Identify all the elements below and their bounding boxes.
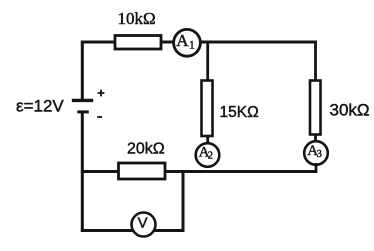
wire voltmeter loop right vertical <box>182 170 185 232</box>
svg-text:2: 2 <box>208 151 213 162</box>
battery B1 negative plate <box>77 110 89 113</box>
ammeter A1 <box>174 29 201 56</box>
svg-text:15KΩ: 15KΩ <box>220 104 259 121</box>
svg-text:1: 1 <box>189 40 195 52</box>
ammeter A3 <box>304 141 328 165</box>
wire bottom rail <box>81 170 317 173</box>
svg-text:ε=12V: ε=12V <box>16 97 64 116</box>
wire top rail right segment from A1 to right branch <box>198 41 317 44</box>
svg-text:A: A <box>176 31 189 50</box>
wire from R3 to ammeter A3 <box>314 135 317 144</box>
resistor R2 15KΩ <box>202 81 213 137</box>
svg-text:20kΩ: 20kΩ <box>127 141 165 158</box>
svg-text:30kΩ: 30kΩ <box>330 101 370 120</box>
svg-text:10kΩ: 10kΩ <box>118 9 156 28</box>
battery B1 positive plate <box>72 99 93 102</box>
wire from R2 to ammeter A2 <box>206 136 209 145</box>
wire from R1 to ammeter A1 <box>161 41 176 44</box>
battery plus sign <box>98 90 105 97</box>
battery minus sign <box>97 116 102 118</box>
resistor R3 30kΩ <box>310 81 321 135</box>
ammeter A2 <box>196 143 220 167</box>
resistor R1 10kΩ <box>115 36 161 50</box>
svg-text:V: V <box>138 214 148 231</box>
wire from A3 to bottom rail <box>315 163 318 173</box>
wire right branch top <box>314 41 317 83</box>
voltmeter V <box>132 213 156 237</box>
wire middle branch top <box>206 41 209 83</box>
wire top rail left segment <box>81 41 117 44</box>
wire left vertical from top rail to battery <box>81 41 84 101</box>
wire voltmeter loop bottom <box>81 229 184 232</box>
svg-text:3: 3 <box>317 149 322 160</box>
wire battery bottom lead continuing to voltmeter loop <box>81 112 84 232</box>
resistor R4 20kΩ <box>119 163 166 179</box>
